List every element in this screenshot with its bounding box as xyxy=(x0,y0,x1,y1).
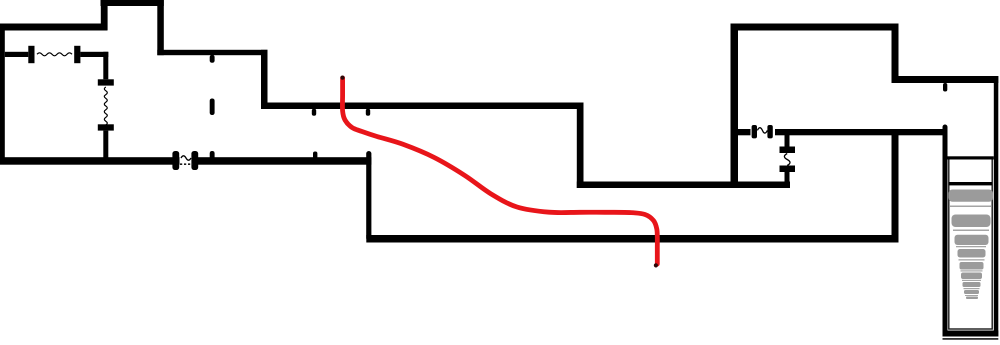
stairs thin tread lines xyxy=(950,206,991,297)
wall tower right xyxy=(157,0,164,55)
wall stairs left x945 with round top xyxy=(943,127,948,333)
wall top-right top xyxy=(731,24,899,31)
window W1 wall stub left xyxy=(5,52,29,57)
wall vertical x264 xyxy=(261,50,268,109)
tick f xyxy=(313,152,317,160)
stairs steps gray bars xyxy=(949,190,994,300)
path end tip xyxy=(654,263,658,267)
wall y132 right part xyxy=(775,129,944,135)
window W2 cap bottom xyxy=(98,124,114,130)
window W1 cap left xyxy=(28,46,34,63)
window W1 squiggle xyxy=(37,53,72,56)
wall vertical x581 xyxy=(577,103,584,189)
window W1 wall stub right xyxy=(80,52,108,57)
wall y80 to stairs xyxy=(892,76,999,83)
tick c xyxy=(210,151,215,160)
door D3 cap left xyxy=(172,151,179,170)
door D4 cap right xyxy=(767,125,772,138)
red navigation path xyxy=(342,78,657,264)
window W2 cap top xyxy=(98,79,114,85)
wall top-right left x734 xyxy=(731,24,739,187)
wall corner down x106 xyxy=(103,52,108,80)
tick g xyxy=(943,83,947,92)
wall tower top xyxy=(101,0,164,6)
wall top segment C long xyxy=(261,103,584,110)
wall stairs right x996 xyxy=(994,76,999,337)
tick a xyxy=(210,55,215,63)
window W2 squiggle vertical xyxy=(104,87,107,125)
wall right lower x895 xyxy=(892,129,899,243)
stairs box top line xyxy=(948,156,994,159)
door D3 squiggle xyxy=(181,156,191,160)
wall corridor top y183 xyxy=(577,182,790,189)
wall bottom long y239 xyxy=(366,235,898,243)
wall top segment B xyxy=(157,50,267,55)
wall tower left xyxy=(101,0,108,30)
wall top-left horizontal xyxy=(0,24,108,31)
path start tip xyxy=(340,76,344,80)
wall vertical x369 round top xyxy=(366,154,371,238)
wall y132 left stub xyxy=(735,129,751,135)
door D3 swing dotted arc xyxy=(180,163,193,165)
door D3 cap right xyxy=(191,151,198,170)
door D5 stem bottom xyxy=(785,172,790,188)
door D5 cap top xyxy=(780,147,796,154)
tick d xyxy=(312,109,316,116)
door D4 squiggle xyxy=(757,128,767,133)
wall stairs bottom xyxy=(943,331,999,337)
door D4 cap left xyxy=(752,125,757,138)
door D5 stem top xyxy=(785,135,790,147)
wall bottom-left y160 west of door xyxy=(0,157,180,165)
tick b xyxy=(210,99,215,116)
wall left outer xyxy=(0,24,5,165)
wall stem x106 lower xyxy=(103,131,108,160)
window W1 cap right xyxy=(74,46,80,63)
wall bottom-left y160 east of door xyxy=(192,157,371,165)
stairs bottom halo line xyxy=(943,338,999,340)
stairs interior outline xyxy=(949,158,992,329)
stairs landing divider xyxy=(949,182,992,185)
wall top-right right x895 upper xyxy=(892,24,899,84)
door D5 cap bottom xyxy=(780,166,796,173)
door D5 squiggle vertical xyxy=(784,154,790,166)
tick e xyxy=(366,109,370,116)
